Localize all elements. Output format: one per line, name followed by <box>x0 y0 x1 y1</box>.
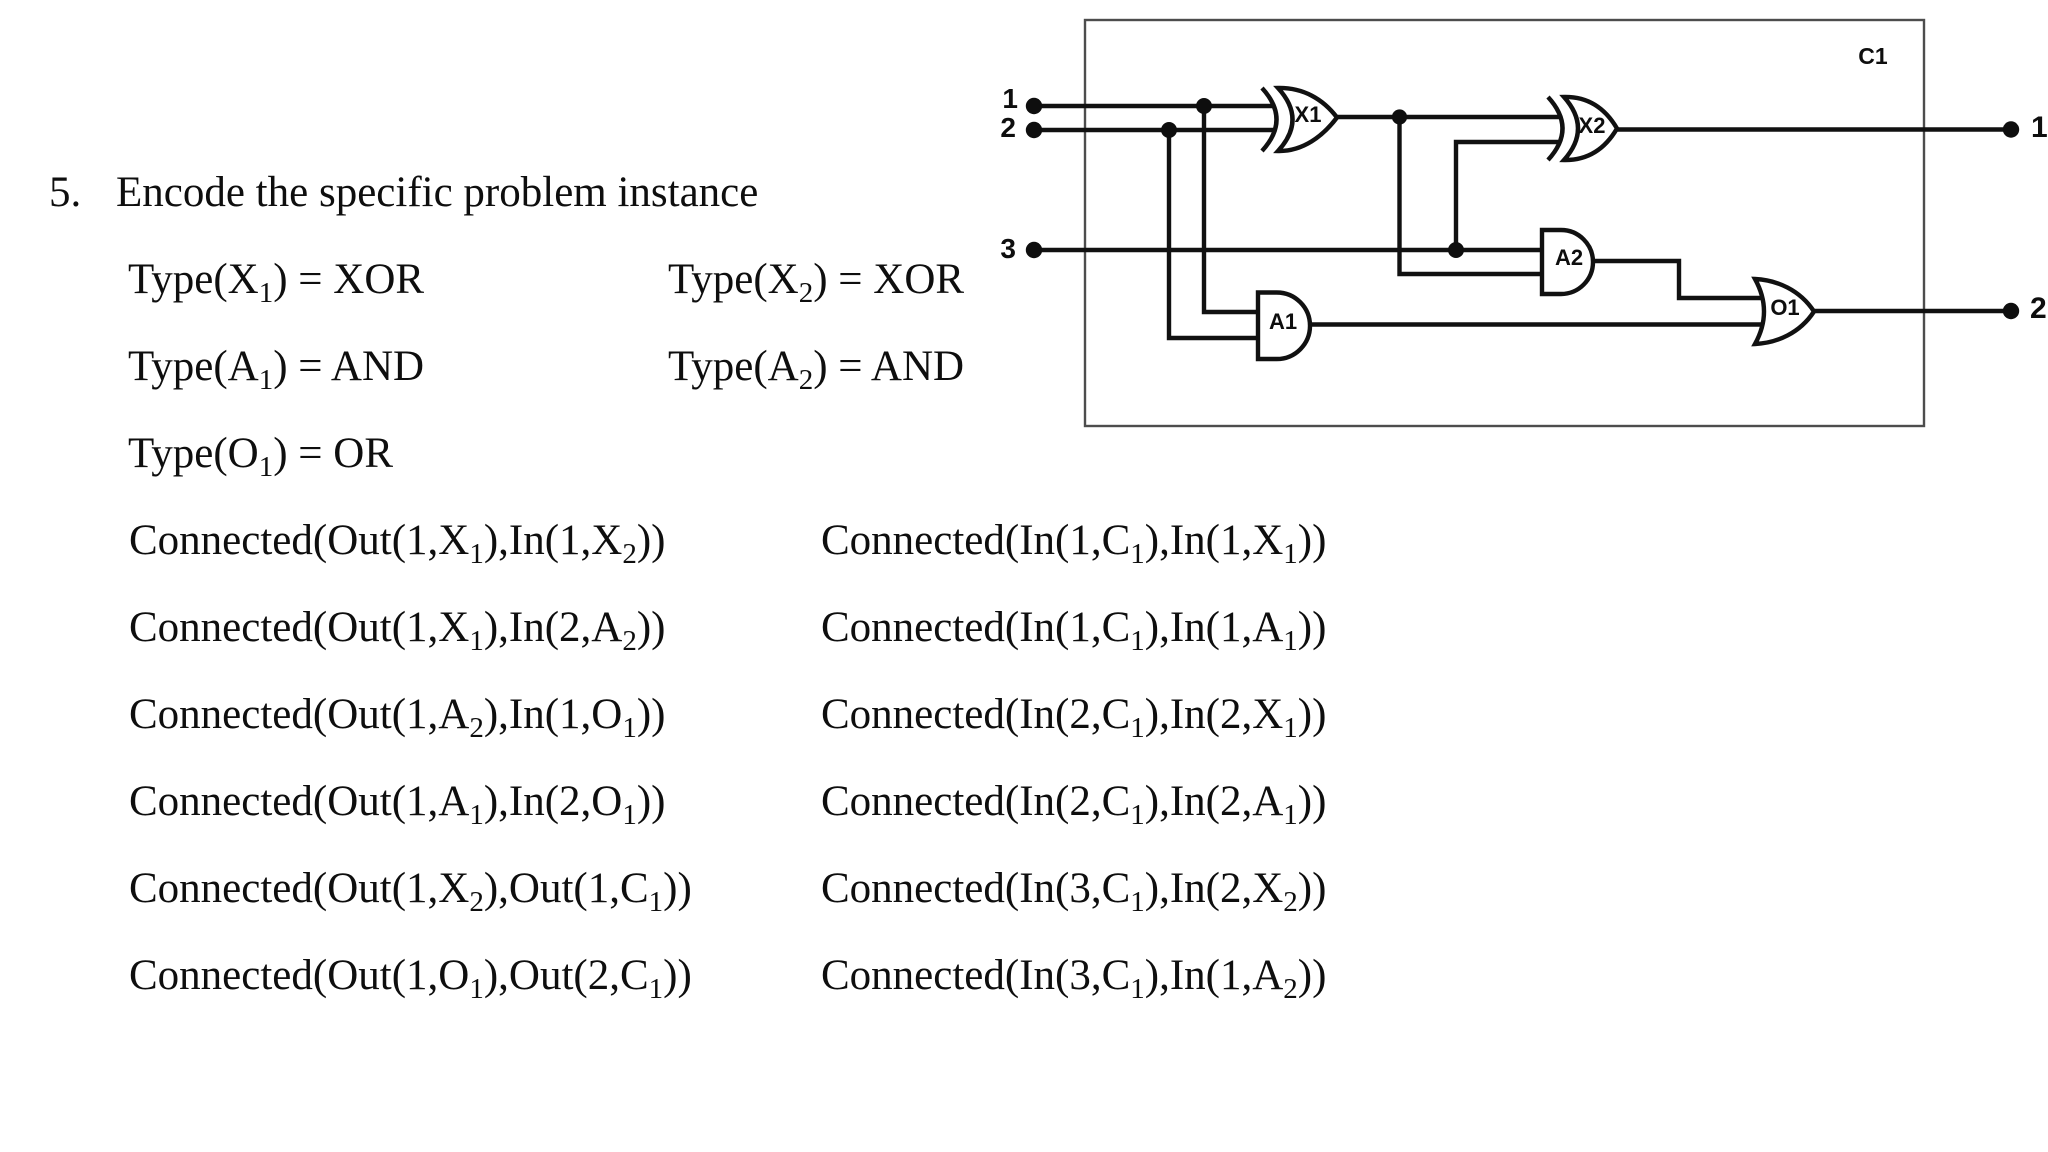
svg-text:2: 2 <box>2030 292 2047 325</box>
svg-text:O1: O1 <box>1770 295 1799 320</box>
xor gate X1 <box>1262 88 1337 151</box>
svg-text:2: 2 <box>1000 112 1016 143</box>
text: Connected assertions left column <box>129 517 692 1005</box>
wire A1 output to O1 pin 2 <box>1310 322 1763 326</box>
svg-text:Connected(In(2,C1),In(2,X1)): Connected(In(2,C1),In(2,X1)) <box>821 691 1326 744</box>
svg-text:Connected(Out(1,X2),Out(1,C1)): Connected(Out(1,X2),Out(1,C1)) <box>129 865 692 918</box>
wire A2 output to O1 pin 1 <box>1593 261 1763 298</box>
wire input 3 to A2 pin 1 <box>1034 248 1542 252</box>
wire input 2 to X1 pin 2 <box>1034 128 1275 132</box>
svg-text:Connected(In(1,C1),In(1,X1)): Connected(In(1,C1),In(1,X1)) <box>821 517 1326 570</box>
svg-text:Connected(Out(1,A2),In(1,O1)): Connected(Out(1,A2),In(1,O1)) <box>129 691 665 744</box>
wire X2 output to terminal 1 <box>1616 127 2011 131</box>
junction node input1/A1 branch <box>1196 98 1212 114</box>
or gate O1 <box>1755 279 1814 344</box>
circuit C1 enclosure box <box>1085 20 1924 426</box>
svg-text:C1: C1 <box>1858 43 1888 69</box>
junction node X1 output branch <box>1392 109 1407 124</box>
text: Type declarations column 1 and 2 <box>128 256 964 483</box>
wire X1 output to X2 pin 1 <box>1336 115 1560 119</box>
and gate A2 <box>1542 230 1593 294</box>
input terminal 3 <box>1026 242 1042 258</box>
svg-text:Connected(In(3,C1),In(2,X2)): Connected(In(3,C1),In(2,X2)) <box>821 865 1326 918</box>
svg-text:5.: 5. <box>49 169 81 216</box>
junction node input2/A1 branch <box>1161 122 1177 138</box>
svg-text:1: 1 <box>1002 83 1018 114</box>
heading: 5. Encode the specific problem instance <box>49 169 758 216</box>
svg-text:Connected(Out(1,A1),In(2,O1)): Connected(Out(1,A1),In(2,O1)) <box>129 778 665 831</box>
wire branch input 2 to A1 pin 2 <box>1169 130 1258 338</box>
svg-text:Type(A1) = AND: Type(A1) = AND <box>128 343 424 396</box>
svg-text:Connected(Out(1,O1),Out(2,C1)): Connected(Out(1,O1),Out(2,C1)) <box>129 952 692 1005</box>
text: Connected assertions right column <box>821 517 1326 1005</box>
svg-text:Type(X2) = XOR: Type(X2) = XOR <box>668 256 964 309</box>
svg-text:X1: X1 <box>1295 102 1322 127</box>
and gate A1 <box>1258 293 1310 360</box>
svg-text:Connected(Out(1,X1),In(2,A2)): Connected(Out(1,X1),In(2,A2)) <box>129 604 665 657</box>
svg-text:A1: A1 <box>1269 309 1297 334</box>
svg-text:X2: X2 <box>1579 113 1606 138</box>
input terminal 2 <box>1026 122 1042 138</box>
svg-text:Connected(In(3,C1),In(1,A2)): Connected(In(3,C1),In(1,A2)) <box>821 952 1326 1005</box>
svg-text:Encode the specific problem in: Encode the specific problem instance <box>116 169 758 216</box>
svg-text:A2: A2 <box>1555 245 1583 270</box>
svg-text:Connected(In(2,C1),In(2,A1)): Connected(In(2,C1),In(2,A1)) <box>821 778 1326 831</box>
input terminal 1 <box>1026 98 1042 114</box>
output terminal 2 <box>2003 303 2019 319</box>
wire branch X1 output to A2 pin 2 <box>1400 117 1543 274</box>
output terminal 1 <box>2003 121 2019 137</box>
svg-text:Connected(In(1,C1),In(1,A1)): Connected(In(1,C1),In(1,A1)) <box>821 604 1326 657</box>
svg-text:Type(A2) = AND: Type(A2) = AND <box>668 343 964 396</box>
svg-text:Connected(Out(1,X1),In(1,X2)): Connected(Out(1,X1),In(1,X2)) <box>129 517 665 570</box>
junction node input3/X2 branch <box>1448 242 1464 258</box>
svg-text:1: 1 <box>2031 111 2048 144</box>
svg-text:Type(X1) = XOR: Type(X1) = XOR <box>128 256 424 309</box>
svg-text:3: 3 <box>1000 233 1016 264</box>
wire branch input 1 to A1 pin 1 <box>1204 106 1258 312</box>
wire branch input 3 to X2 pin 2 <box>1456 142 1561 250</box>
wire input 1 to X1 pin 1 <box>1034 104 1275 108</box>
wire O1 output to terminal 2 <box>1813 309 2011 313</box>
xor gate X2 <box>1548 97 1617 160</box>
